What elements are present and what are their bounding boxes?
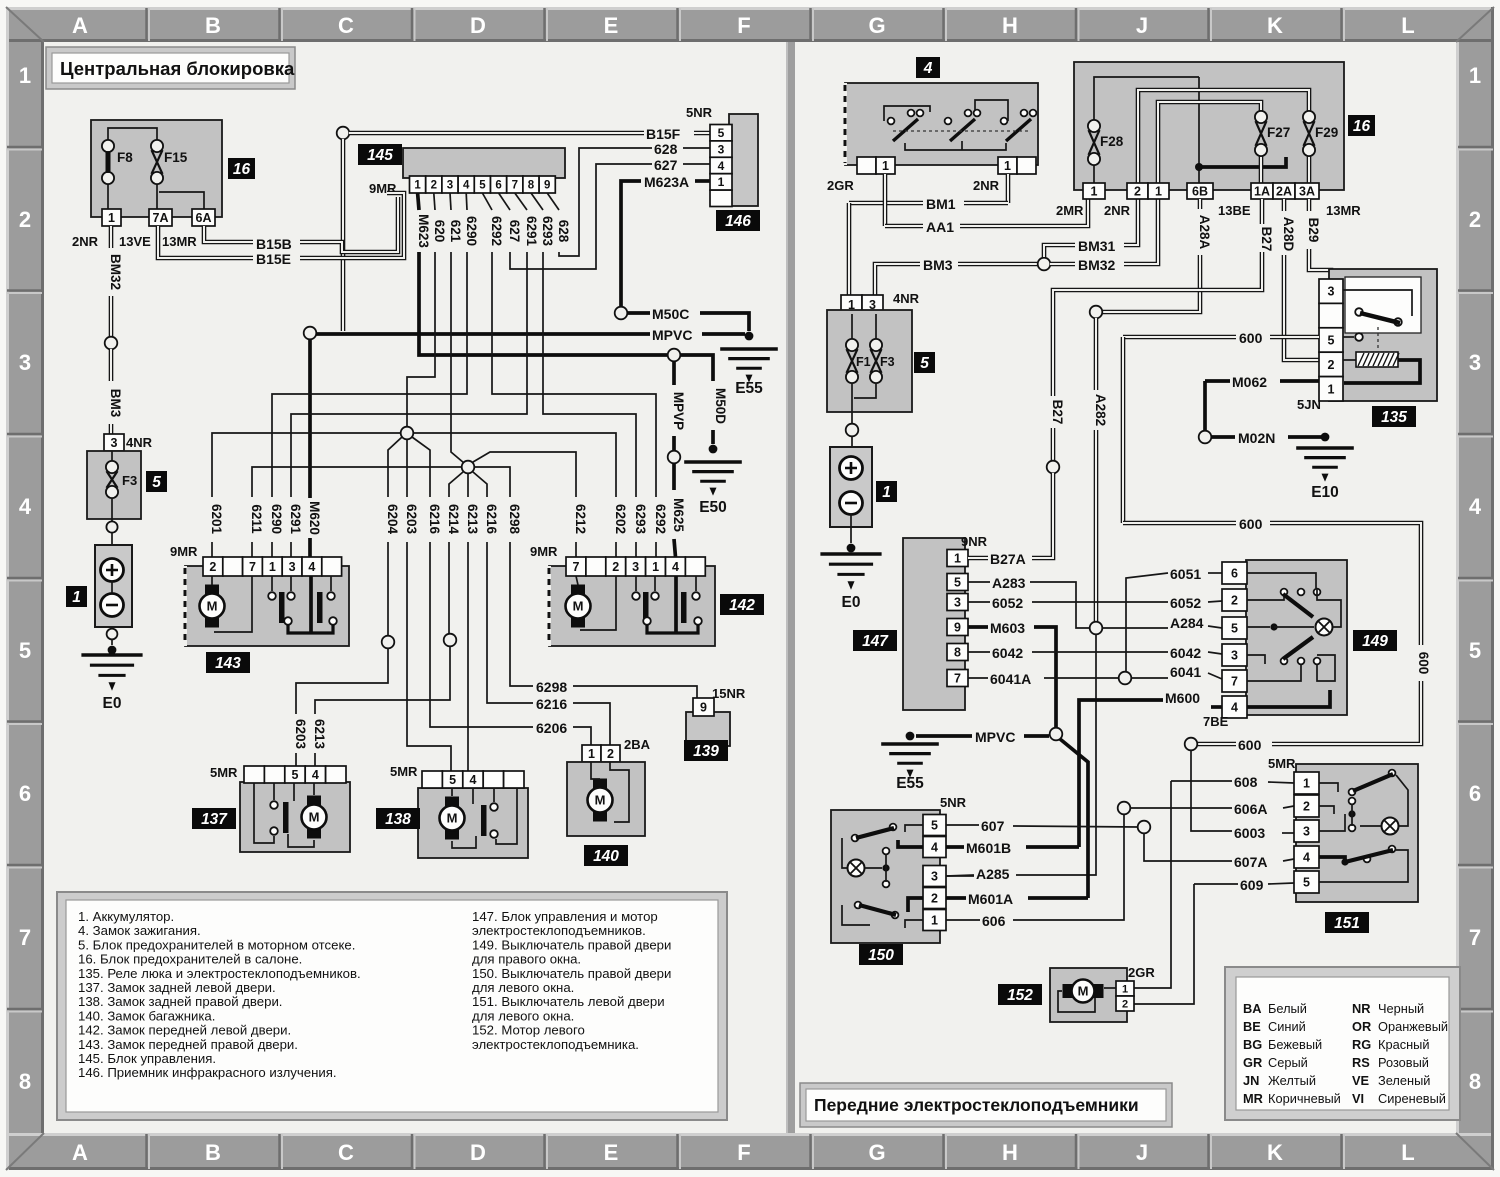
svg-text:16. Блок предохранителей в са: 16. Блок предохранителей в салоне. [78, 952, 302, 967]
svg-text:4: 4 [672, 560, 679, 574]
svg-text:137: 137 [201, 811, 228, 828]
svg-text:4NR: 4NR [126, 435, 153, 450]
svg-text:4: 4 [718, 159, 725, 173]
svg-text:F: F [737, 13, 750, 38]
svg-text:2MR: 2MR [1056, 203, 1084, 218]
svg-text:Розовый: Розовый [1378, 1055, 1429, 1070]
svg-text:C: C [338, 1140, 354, 1165]
svg-text:B15F: B15F [646, 126, 681, 142]
svg-text:4: 4 [308, 560, 315, 574]
svg-text:6052: 6052 [1170, 595, 1201, 611]
svg-text:6041: 6041 [1170, 664, 1201, 680]
svg-text:NR: NR [1352, 1001, 1370, 1016]
svg-text:1: 1 [1155, 185, 1162, 199]
svg-text:F3: F3 [122, 473, 137, 488]
svg-text:M601A: M601A [968, 891, 1013, 907]
svg-text:4: 4 [931, 841, 938, 855]
svg-text:A28A: A28A [1197, 215, 1212, 250]
svg-text:9: 9 [954, 621, 961, 635]
svg-text:D: D [470, 1140, 486, 1165]
svg-text:JN: JN [1243, 1073, 1259, 1088]
svg-text:F15: F15 [164, 150, 188, 165]
svg-text:6291: 6291 [288, 504, 303, 535]
svg-text:1: 1 [414, 180, 421, 192]
svg-text:A284: A284 [1170, 615, 1204, 631]
svg-text:F1: F1 [856, 355, 871, 369]
svg-text:146: 146 [725, 213, 751, 230]
svg-text:135. Реле люка и электростекл: 135. Реле люка и электростеклоподъемнико… [78, 966, 361, 981]
svg-text:E10: E10 [1311, 484, 1339, 501]
svg-text:1: 1 [1122, 983, 1128, 995]
svg-text:6216: 6216 [484, 504, 499, 535]
svg-text:3: 3 [1328, 285, 1335, 299]
svg-text:H: H [1002, 1140, 1018, 1165]
svg-text:для левого окна.: для левого окна. [472, 980, 574, 995]
svg-text:E: E [604, 1140, 619, 1165]
svg-text:MPVP: MPVP [671, 392, 686, 430]
svg-text:140: 140 [593, 848, 619, 865]
svg-text:5: 5 [19, 638, 31, 663]
svg-text:4: 4 [1469, 494, 1482, 519]
svg-text:2NR: 2NR [973, 178, 1000, 193]
svg-text:B15B: B15B [256, 236, 292, 252]
svg-text:1: 1 [652, 560, 659, 574]
svg-text:A282: A282 [1093, 394, 1108, 426]
svg-text:1: 1 [931, 914, 938, 928]
svg-text:5: 5 [1469, 638, 1481, 663]
svg-text:электростеклоподъемников.: электростеклоподъемников. [472, 923, 646, 938]
svg-text:4: 4 [1303, 851, 1310, 865]
svg-text:6: 6 [1231, 567, 1238, 581]
svg-text:152: 152 [1007, 987, 1033, 1004]
svg-text:B27: B27 [1050, 400, 1065, 425]
svg-text:16: 16 [233, 161, 251, 178]
svg-text:6: 6 [1469, 781, 1481, 806]
svg-text:5JN: 5JN [1297, 397, 1321, 412]
svg-text:143. Замок передней правой дв: 143. Замок передней правой двери. [78, 1037, 298, 1052]
svg-text:600: 600 [1239, 516, 1263, 532]
svg-text:Серый: Серый [1268, 1055, 1308, 1070]
svg-text:3: 3 [1231, 649, 1238, 663]
svg-text:F29: F29 [1315, 125, 1338, 140]
svg-text:6290: 6290 [464, 216, 479, 246]
svg-text:606: 606 [982, 913, 1006, 929]
svg-text:Оранжевый: Оранжевый [1378, 1019, 1448, 1034]
svg-text:4: 4 [923, 60, 933, 77]
svg-text:E: E [604, 13, 619, 38]
svg-text:1: 1 [72, 589, 81, 606]
svg-text:6292: 6292 [653, 504, 668, 534]
svg-text:6203: 6203 [293, 719, 308, 750]
svg-text:M50D: M50D [713, 388, 728, 424]
svg-text:620: 620 [432, 220, 447, 243]
svg-text:MR: MR [1243, 1091, 1263, 1106]
svg-text:143: 143 [215, 655, 241, 672]
svg-text:6051: 6051 [1170, 566, 1201, 582]
svg-text:147: 147 [862, 633, 889, 650]
svg-text:GR: GR [1243, 1055, 1262, 1070]
svg-text:4: 4 [463, 180, 470, 192]
svg-text:608: 608 [1234, 774, 1258, 790]
svg-text:A: A [72, 13, 88, 38]
svg-text:Бежевый: Бежевый [1268, 1037, 1322, 1052]
svg-text:AA1: AA1 [926, 219, 954, 235]
svg-text:H: H [1002, 13, 1018, 38]
svg-text:5: 5 [449, 773, 456, 787]
svg-text:6216: 6216 [427, 504, 442, 535]
svg-text:3: 3 [931, 870, 938, 884]
svg-text:7: 7 [19, 925, 31, 950]
svg-text:4: 4 [1231, 701, 1238, 715]
svg-text:1: 1 [269, 560, 276, 574]
svg-text:7BE: 7BE [1203, 714, 1229, 729]
svg-text:1: 1 [1091, 185, 1098, 199]
svg-text:6042: 6042 [992, 645, 1023, 661]
svg-text:1. Аккумулятор.: 1. Аккумулятор. [78, 909, 174, 924]
svg-text:2: 2 [612, 560, 619, 574]
svg-text:9MR: 9MR [170, 544, 198, 559]
svg-text:RS: RS [1352, 1055, 1370, 1070]
svg-text:5: 5 [479, 180, 486, 192]
svg-text:600: 600 [1238, 737, 1262, 753]
svg-text:M620: M620 [307, 501, 322, 535]
svg-text:607: 607 [981, 818, 1005, 834]
svg-text:Черный: Черный [1378, 1001, 1424, 1016]
svg-text:B: B [205, 1140, 221, 1165]
svg-text:8: 8 [19, 1069, 31, 1094]
svg-text:VE: VE [1352, 1073, 1370, 1088]
svg-text:7: 7 [572, 560, 579, 574]
svg-text:6290: 6290 [269, 504, 284, 534]
svg-text:6B: 6B [1192, 185, 1208, 199]
svg-text:6: 6 [495, 180, 501, 192]
svg-text:3: 3 [954, 596, 961, 610]
svg-text:4: 4 [470, 773, 477, 787]
svg-text:F3: F3 [880, 355, 895, 369]
svg-text:K: K [1267, 1140, 1283, 1165]
svg-text:F: F [737, 1140, 750, 1165]
svg-text:6204: 6204 [385, 504, 400, 535]
svg-text:3: 3 [289, 560, 296, 574]
svg-text:BG: BG [1243, 1037, 1262, 1052]
svg-text:6202: 6202 [613, 504, 628, 534]
svg-text:2: 2 [1231, 594, 1238, 608]
svg-text:5. Блок предохранителей в мот: 5. Блок предохранителей в моторном отсек… [78, 937, 355, 952]
svg-text:A: A [72, 1140, 88, 1165]
svg-text:13MR: 13MR [1326, 203, 1361, 218]
svg-text:1: 1 [954, 552, 961, 566]
svg-text:6203: 6203 [404, 504, 419, 535]
svg-text:1A: 1A [1254, 185, 1270, 199]
svg-text:BM32: BM32 [108, 254, 123, 290]
svg-text:BA: BA [1243, 1001, 1261, 1016]
svg-text:1: 1 [108, 211, 115, 225]
svg-text:135: 135 [1381, 409, 1407, 426]
svg-text:138: 138 [385, 811, 411, 828]
svg-text:электростеклоподъемника.: электростеклоподъемника. [472, 1037, 639, 1052]
svg-text:6213: 6213 [312, 719, 327, 750]
svg-text:2: 2 [1122, 998, 1128, 1010]
svg-text:9NR: 9NR [961, 534, 988, 549]
svg-text:6298: 6298 [507, 504, 522, 535]
svg-text:2: 2 [1134, 185, 1141, 199]
svg-text:для левого окна.: для левого окна. [472, 1008, 574, 1023]
svg-text:15NR: 15NR [712, 686, 746, 701]
svg-text:9: 9 [544, 180, 550, 192]
svg-text:5: 5 [954, 576, 961, 590]
svg-text:1: 1 [588, 747, 595, 761]
svg-text:6052: 6052 [992, 595, 1023, 611]
svg-text:M603: M603 [990, 620, 1025, 636]
svg-text:2: 2 [1328, 358, 1335, 372]
svg-text:Сиреневый: Сиреневый [1378, 1091, 1446, 1106]
svg-text:2GR: 2GR [1128, 965, 1155, 980]
svg-text:6292: 6292 [489, 216, 504, 246]
svg-text:C: C [338, 13, 354, 38]
svg-text:M: M [447, 811, 458, 826]
svg-text:BM3: BM3 [108, 389, 123, 418]
svg-text:B: B [205, 13, 221, 38]
svg-text:3: 3 [632, 560, 639, 574]
svg-text:E0: E0 [103, 695, 122, 712]
svg-text:F8: F8 [117, 150, 133, 165]
svg-text:5: 5 [920, 355, 929, 372]
svg-text:7: 7 [249, 560, 256, 574]
svg-text:13MR: 13MR [162, 234, 197, 249]
svg-text:2: 2 [1303, 800, 1310, 814]
svg-text:1: 1 [1004, 159, 1011, 173]
svg-text:6201: 6201 [209, 504, 224, 535]
svg-text:A285: A285 [976, 866, 1010, 882]
svg-text:MPVC: MPVC [652, 327, 692, 343]
svg-text:M623A: M623A [644, 174, 689, 190]
svg-text:4. Замок зажигания.: 4. Замок зажигания. [78, 923, 201, 938]
svg-text:606A: 606A [1234, 801, 1267, 817]
svg-text:7: 7 [512, 180, 518, 192]
svg-text:5: 5 [292, 768, 299, 782]
svg-text:M: M [1078, 984, 1089, 999]
svg-text:M601B: M601B [966, 840, 1011, 856]
svg-text:OR: OR [1352, 1019, 1371, 1034]
svg-text:A28D: A28D [1281, 217, 1296, 252]
svg-text:Желтый: Желтый [1268, 1073, 1316, 1088]
svg-text:2BA: 2BA [624, 737, 651, 752]
svg-text:13BE: 13BE [1218, 203, 1251, 218]
svg-text:137. Замок задней левой двери: 137. Замок задней левой двери. [78, 980, 276, 995]
svg-text:MPVC: MPVC [975, 729, 1015, 745]
svg-text:5NR: 5NR [686, 105, 713, 120]
svg-text:13VE: 13VE [119, 234, 151, 249]
svg-text:9MR: 9MR [530, 544, 558, 559]
svg-text:142: 142 [729, 597, 755, 614]
svg-text:5: 5 [1328, 334, 1335, 348]
svg-text:E55: E55 [896, 775, 924, 792]
svg-text:Зеленый: Зеленый [1378, 1073, 1430, 1088]
svg-text:M062: M062 [1232, 374, 1267, 390]
svg-text:3: 3 [447, 180, 453, 192]
svg-text:8: 8 [954, 646, 961, 660]
svg-text:2: 2 [19, 207, 31, 232]
svg-text:151. Выключатель левой двери: 151. Выключатель левой двери [472, 994, 665, 1009]
svg-text:142. Замок передней левой две: 142. Замок передней левой двери. [78, 1023, 291, 1038]
svg-text:G: G [868, 1140, 885, 1165]
svg-text:J: J [1136, 1140, 1148, 1165]
svg-text:K: K [1267, 13, 1283, 38]
svg-text:5: 5 [931, 819, 938, 833]
svg-text:150: 150 [868, 947, 894, 964]
svg-text:1: 1 [1328, 382, 1335, 396]
svg-text:M50C: M50C [652, 306, 689, 322]
svg-text:Передние электростеклоподъемни: Передние электростеклоподъемники [814, 1095, 1139, 1115]
svg-text:D: D [470, 13, 486, 38]
svg-text:145: 145 [367, 147, 393, 164]
svg-text:5: 5 [1231, 622, 1238, 636]
svg-text:149. Выключатель правой двери: 149. Выключатель правой двери [472, 937, 671, 952]
svg-text:1: 1 [1469, 63, 1481, 88]
svg-text:6211: 6211 [249, 504, 264, 534]
svg-text:5NR: 5NR [940, 795, 967, 810]
svg-text:BE: BE [1243, 1019, 1261, 1034]
svg-text:600: 600 [1239, 330, 1263, 346]
svg-text:6293: 6293 [633, 504, 648, 535]
svg-text:6A: 6A [196, 211, 212, 225]
svg-text:607A: 607A [1234, 854, 1267, 870]
svg-text:2A: 2A [1276, 185, 1292, 199]
svg-text:140. Замок багажника.: 140. Замок багажника. [78, 1008, 215, 1023]
svg-text:B29: B29 [1306, 218, 1321, 243]
svg-text:E55: E55 [735, 380, 763, 397]
svg-text:3: 3 [19, 350, 31, 375]
svg-text:6042: 6042 [1170, 645, 1201, 661]
svg-text:BM1: BM1 [926, 196, 956, 212]
svg-text:3: 3 [1303, 825, 1310, 839]
svg-text:152. Мотор левого: 152. Мотор левого [472, 1023, 585, 1038]
svg-text:6041A: 6041A [990, 671, 1031, 687]
svg-text:5: 5 [1303, 876, 1310, 890]
svg-text:M625: M625 [671, 498, 686, 532]
svg-text:BM31: BM31 [1078, 238, 1116, 254]
svg-text:6213: 6213 [465, 504, 480, 535]
svg-text:E50: E50 [699, 499, 727, 516]
svg-text:F28: F28 [1100, 134, 1124, 149]
svg-text:для правого окна.: для правого окна. [472, 952, 581, 967]
svg-text:2: 2 [209, 560, 216, 574]
svg-text:2NR: 2NR [72, 234, 99, 249]
svg-text:7: 7 [1469, 925, 1481, 950]
svg-text:7: 7 [954, 672, 961, 686]
svg-text:M: M [595, 793, 606, 808]
svg-text:B15E: B15E [256, 251, 291, 267]
svg-text:147. Блок управления и мотор: 147. Блок управления и мотор [472, 909, 658, 924]
svg-text:2NR: 2NR [1104, 203, 1131, 218]
svg-text:1: 1 [718, 175, 725, 189]
svg-text:609: 609 [1240, 877, 1264, 893]
svg-text:7A: 7A [153, 211, 169, 225]
svg-text:2: 2 [431, 180, 437, 192]
svg-text:2GR: 2GR [827, 178, 854, 193]
svg-text:BM3: BM3 [923, 257, 953, 273]
svg-text:150. Выключатель правой двери: 150. Выключатель правой двери [472, 966, 671, 981]
svg-text:M: M [309, 810, 320, 825]
svg-text:5: 5 [152, 474, 161, 491]
svg-text:627: 627 [654, 157, 678, 173]
svg-text:1: 1 [882, 484, 891, 501]
svg-text:M: M [207, 599, 218, 614]
svg-text:5MR: 5MR [390, 764, 418, 779]
svg-text:627: 627 [507, 220, 522, 243]
svg-text:145. Блок управления.: 145. Блок управления. [78, 1051, 216, 1066]
svg-text:L: L [1401, 1140, 1414, 1165]
svg-text:6216: 6216 [536, 696, 567, 712]
svg-text:4: 4 [19, 494, 32, 519]
svg-text:BM32: BM32 [1078, 257, 1116, 273]
svg-text:6291: 6291 [524, 216, 539, 247]
svg-text:16: 16 [1353, 118, 1371, 135]
svg-text:5MR: 5MR [1268, 756, 1296, 771]
svg-text:6003: 6003 [1234, 825, 1265, 841]
svg-text:7: 7 [1231, 675, 1238, 689]
svg-text:3: 3 [111, 436, 118, 450]
svg-text:600: 600 [1416, 652, 1431, 675]
svg-text:4NR: 4NR [893, 291, 920, 306]
svg-text:VI: VI [1352, 1091, 1364, 1106]
svg-text:1: 1 [882, 159, 889, 173]
svg-text:M600: M600 [1165, 690, 1200, 706]
svg-text:1: 1 [19, 63, 31, 88]
svg-text:6206: 6206 [536, 720, 567, 736]
svg-text:Белый: Белый [1268, 1001, 1307, 1016]
svg-text:L: L [1401, 13, 1414, 38]
svg-text:2: 2 [607, 747, 614, 761]
svg-text:G: G [868, 13, 885, 38]
svg-text:4: 4 [312, 768, 319, 782]
svg-text:6214: 6214 [446, 504, 461, 535]
svg-text:Коричневый: Коричневый [1268, 1091, 1341, 1106]
svg-text:9: 9 [700, 701, 707, 715]
svg-text:8: 8 [1469, 1069, 1481, 1094]
svg-text:151: 151 [1334, 915, 1360, 932]
svg-text:M02N: M02N [1238, 430, 1275, 446]
svg-text:1: 1 [1303, 777, 1310, 791]
svg-text:621: 621 [448, 220, 463, 243]
svg-text:J: J [1136, 13, 1148, 38]
svg-text:149: 149 [1362, 633, 1388, 650]
svg-text:3: 3 [1469, 350, 1481, 375]
svg-text:E0: E0 [842, 594, 861, 611]
svg-text:3: 3 [718, 142, 725, 156]
svg-text:5: 5 [718, 126, 725, 140]
svg-text:628: 628 [654, 141, 678, 157]
svg-text:3A: 3A [1299, 185, 1315, 199]
svg-text:8: 8 [528, 180, 535, 192]
svg-text:6298: 6298 [536, 679, 567, 695]
svg-text:6: 6 [19, 781, 31, 806]
svg-text:RG: RG [1352, 1037, 1371, 1052]
svg-text:6293: 6293 [540, 216, 555, 247]
svg-text:Синий: Синий [1268, 1019, 1306, 1034]
svg-text:2: 2 [1469, 207, 1481, 232]
svg-text:B27A: B27A [990, 551, 1026, 567]
svg-text:138. Замок задней правой двер: 138. Замок задней правой двери. [78, 994, 282, 1009]
svg-text:A283: A283 [992, 575, 1026, 591]
svg-text:M: M [573, 599, 584, 614]
svg-text:F27: F27 [1267, 125, 1290, 140]
svg-text:5MR: 5MR [210, 765, 238, 780]
svg-text:139: 139 [693, 743, 719, 760]
svg-text:Центральная блокировка: Центральная блокировка [60, 58, 295, 79]
svg-text:M623: M623 [416, 214, 431, 248]
svg-text:B27: B27 [1259, 227, 1274, 252]
